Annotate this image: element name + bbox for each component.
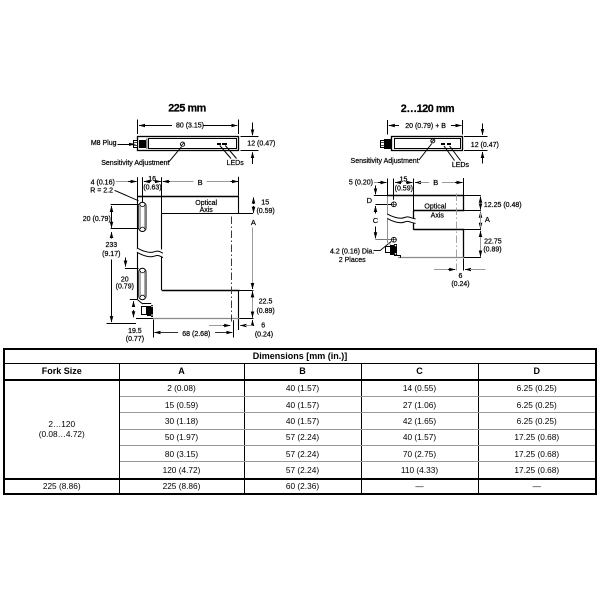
dim 19.5 line + bottom arrow xyxy=(133,310,135,317)
mounting hole bottom xyxy=(392,237,397,242)
right dim 12 (0.47) ext lines xyxy=(464,136,488,138)
right fork top edge xyxy=(387,195,464,197)
upper mounting slot xyxy=(139,202,146,231)
svg-text:(0.63): (0.63) xyxy=(143,185,161,192)
svg-text:(0.59): (0.59) xyxy=(395,185,413,192)
R leader xyxy=(115,190,139,201)
svg-text:6: 6 xyxy=(261,323,265,330)
dim C top arrow xyxy=(375,206,377,214)
optical axis line (upper arm bottom) xyxy=(162,213,253,215)
sensor body side view inner line xyxy=(149,139,237,149)
right dim 12 (0.47) arrows xyxy=(482,124,484,135)
dim 20 (0.79) + B ext lines xyxy=(387,120,389,135)
svg-text:(0.79): (0.79) xyxy=(116,284,134,291)
dim 20 (0.79) upper: ext lines xyxy=(111,204,139,206)
body chamfer to plug xyxy=(138,300,143,304)
dim 233 bottom ext xyxy=(107,323,137,325)
svg-text:68 (2.68): 68 (2.68) xyxy=(182,331,210,338)
svg-text:D: D xyxy=(367,196,373,205)
svg-text:LEDs: LEDs xyxy=(227,160,245,167)
dim 6 arrows xyxy=(209,325,228,327)
svg-text:A: A xyxy=(485,215,490,224)
fork top edge xyxy=(137,196,239,198)
right LED leaders xyxy=(444,146,455,161)
dim A right arrows xyxy=(480,212,482,218)
hole leader bottom xyxy=(375,239,391,241)
dim 22.5 top arrow (below arm line) xyxy=(252,291,254,297)
svg-text:6: 6 xyxy=(458,273,462,280)
dim D ext line xyxy=(374,195,388,197)
dim 68 arrows xyxy=(155,332,163,334)
svg-text:2 Places: 2 Places xyxy=(339,257,366,264)
dim 80 (3.15) ext lines xyxy=(137,120,139,135)
svg-text:Sensitivity Adjustment: Sensitivity Adjustment xyxy=(351,158,419,165)
dim 22.75 top arrow xyxy=(480,231,482,237)
svg-text:20 (0.79) + B: 20 (0.79) + B xyxy=(405,123,446,130)
svg-text:(0.89): (0.89) xyxy=(256,308,274,315)
svg-text:19.5: 19.5 xyxy=(128,328,142,335)
right break wavy band xyxy=(387,214,415,224)
svg-text:(0.77): (0.77) xyxy=(126,336,144,343)
dim 15 (0.59) arrows xyxy=(253,198,255,205)
svg-text:15: 15 xyxy=(261,200,269,207)
right LED marks xyxy=(441,143,445,145)
right fork bottom edge xyxy=(398,257,464,259)
center dash-dot line xyxy=(231,217,233,322)
dim 20 (0.79) lower: top arrow above slot xyxy=(125,258,127,267)
dim 12 (0.47) ext lines xyxy=(241,136,259,138)
dim 12 (0.47) arrows xyxy=(252,123,254,136)
svg-text:20: 20 xyxy=(121,276,129,283)
right sensitivity adjustment screw xyxy=(431,139,435,143)
dim D down arrow xyxy=(375,186,377,195)
svg-text:225 mm: 225 mm xyxy=(168,103,206,115)
svg-text:16: 16 xyxy=(148,176,156,183)
lower mounting slot xyxy=(139,268,146,299)
svg-text:B: B xyxy=(198,178,203,187)
dim 80 (3.15) arrows xyxy=(139,125,172,127)
fork plug (front view) xyxy=(143,303,152,305)
M8 plug body block (side view) xyxy=(139,140,146,148)
svg-text:C: C xyxy=(373,216,379,225)
sensor body side view (225mm) outer xyxy=(138,137,239,151)
svg-text:(0.24): (0.24) xyxy=(451,281,469,288)
svg-text:Axis: Axis xyxy=(431,213,445,220)
right sensitivity adjustment leader xyxy=(419,144,432,161)
svg-text:B: B xyxy=(433,178,438,187)
dim 233 line + bottom arrow xyxy=(111,260,113,323)
right lower arm top edge xyxy=(414,229,464,231)
dim 20 (0.79) + B arrows xyxy=(389,125,399,127)
4.2 dia leader xyxy=(374,250,381,252)
svg-text:Optical: Optical xyxy=(424,204,446,211)
right dim 6 arrows xyxy=(434,269,450,271)
sensor body side view inner line xyxy=(395,139,461,149)
svg-text:(9.17): (9.17) xyxy=(102,251,120,258)
body left edge xyxy=(137,196,139,300)
break wavy band xyxy=(137,248,163,258)
dimensions table xyxy=(3,348,597,495)
svg-text:22.75: 22.75 xyxy=(484,238,502,245)
arm right edge lower segment xyxy=(238,290,240,330)
dim 12.25 (0.48) arrows xyxy=(480,197,482,202)
svg-text:R = 2.2: R = 2.2 xyxy=(90,188,113,195)
svg-text:4 (0.16): 4 (0.16) xyxy=(91,179,115,186)
dim C line + bottom arrow xyxy=(375,227,377,239)
svg-text:(0.24): (0.24) xyxy=(255,332,273,339)
svg-text:2…120 mm: 2…120 mm xyxy=(401,103,454,115)
right arm right edge segments xyxy=(463,196,465,211)
dim 22.5 bottom arrow xyxy=(252,312,254,318)
right center dash-dot line xyxy=(456,194,458,271)
svg-text:Axis: Axis xyxy=(200,207,214,214)
right fork plug xyxy=(388,243,391,245)
dim 22.75 bottom arrow xyxy=(480,251,482,256)
fork gap left edge (segments around break) xyxy=(161,214,163,250)
right fork gap left edge xyxy=(413,211,415,230)
svg-text:12 (0.47): 12 (0.47) xyxy=(471,142,499,149)
svg-text:12.25 (0.48): 12.25 (0.48) xyxy=(484,202,522,209)
right dim 6 ext line xyxy=(463,259,465,271)
dim B line xyxy=(165,181,194,183)
svg-text:22.5: 22.5 xyxy=(259,298,273,305)
dim 233 (9.17): top arrow xyxy=(111,232,113,238)
dim 68 ext line xyxy=(153,320,155,338)
fork front view (225mm): top extension lines xyxy=(137,177,139,196)
svg-text:12 (0.47): 12 (0.47) xyxy=(247,141,275,148)
dim B arrows xyxy=(163,181,170,183)
LED marks xyxy=(217,143,221,145)
dim B right fork xyxy=(415,182,421,184)
dim 16 (0.63) arrows xyxy=(144,181,151,183)
hole leader top xyxy=(375,204,391,206)
svg-text:M8 Plug: M8 Plug xyxy=(91,140,117,147)
svg-text:20 (0.79): 20 (0.79) xyxy=(83,216,111,223)
right fork: top extension lines xyxy=(387,179,389,197)
svg-text:5 (0.20): 5 (0.20) xyxy=(349,180,373,187)
M8 plug thread (right side view) xyxy=(381,141,385,148)
dim 20 lower bottom arrow (shared with 19.5 top) xyxy=(133,301,135,307)
right optical axis line xyxy=(414,210,464,212)
svg-text:LEDs: LEDs xyxy=(452,162,470,169)
svg-text:233: 233 xyxy=(105,242,117,249)
M8 plug thread (side view) xyxy=(134,141,138,148)
svg-text:Optical: Optical xyxy=(195,200,217,207)
fork bottom edge xyxy=(136,318,154,320)
svg-text:Sensitivity Adjustment: Sensitivity Adjustment xyxy=(101,160,169,167)
dim 20 (0.79) upper arrows xyxy=(111,206,113,213)
sensitivity adjustment leader xyxy=(169,147,182,163)
sensitivity adjustment screw xyxy=(181,142,185,146)
dim A line + bottom arrow xyxy=(252,228,254,289)
svg-text:4.2 (0.16) Dia.: 4.2 (0.16) Dia. xyxy=(330,249,374,256)
sensor body side view (2...120mm) outer xyxy=(392,137,463,151)
M8 plug body block (right side view) xyxy=(384,139,392,149)
svg-text:(0.89): (0.89) xyxy=(483,246,501,253)
svg-text:(0.59): (0.59) xyxy=(256,208,274,215)
M8 Plug leader arrow xyxy=(118,144,130,146)
LED leaders xyxy=(220,146,231,159)
arrow below bottom edge xyxy=(252,320,254,326)
lower arm top edge xyxy=(162,290,240,292)
svg-text:80 (3.15): 80 (3.15) xyxy=(176,123,204,130)
mounting hole top xyxy=(392,202,397,207)
arm right edge upper segment xyxy=(238,196,240,214)
right fork body left edge xyxy=(387,196,389,243)
svg-text:A: A xyxy=(251,218,256,227)
dim 6 (0.24) ext lines xyxy=(233,320,235,337)
